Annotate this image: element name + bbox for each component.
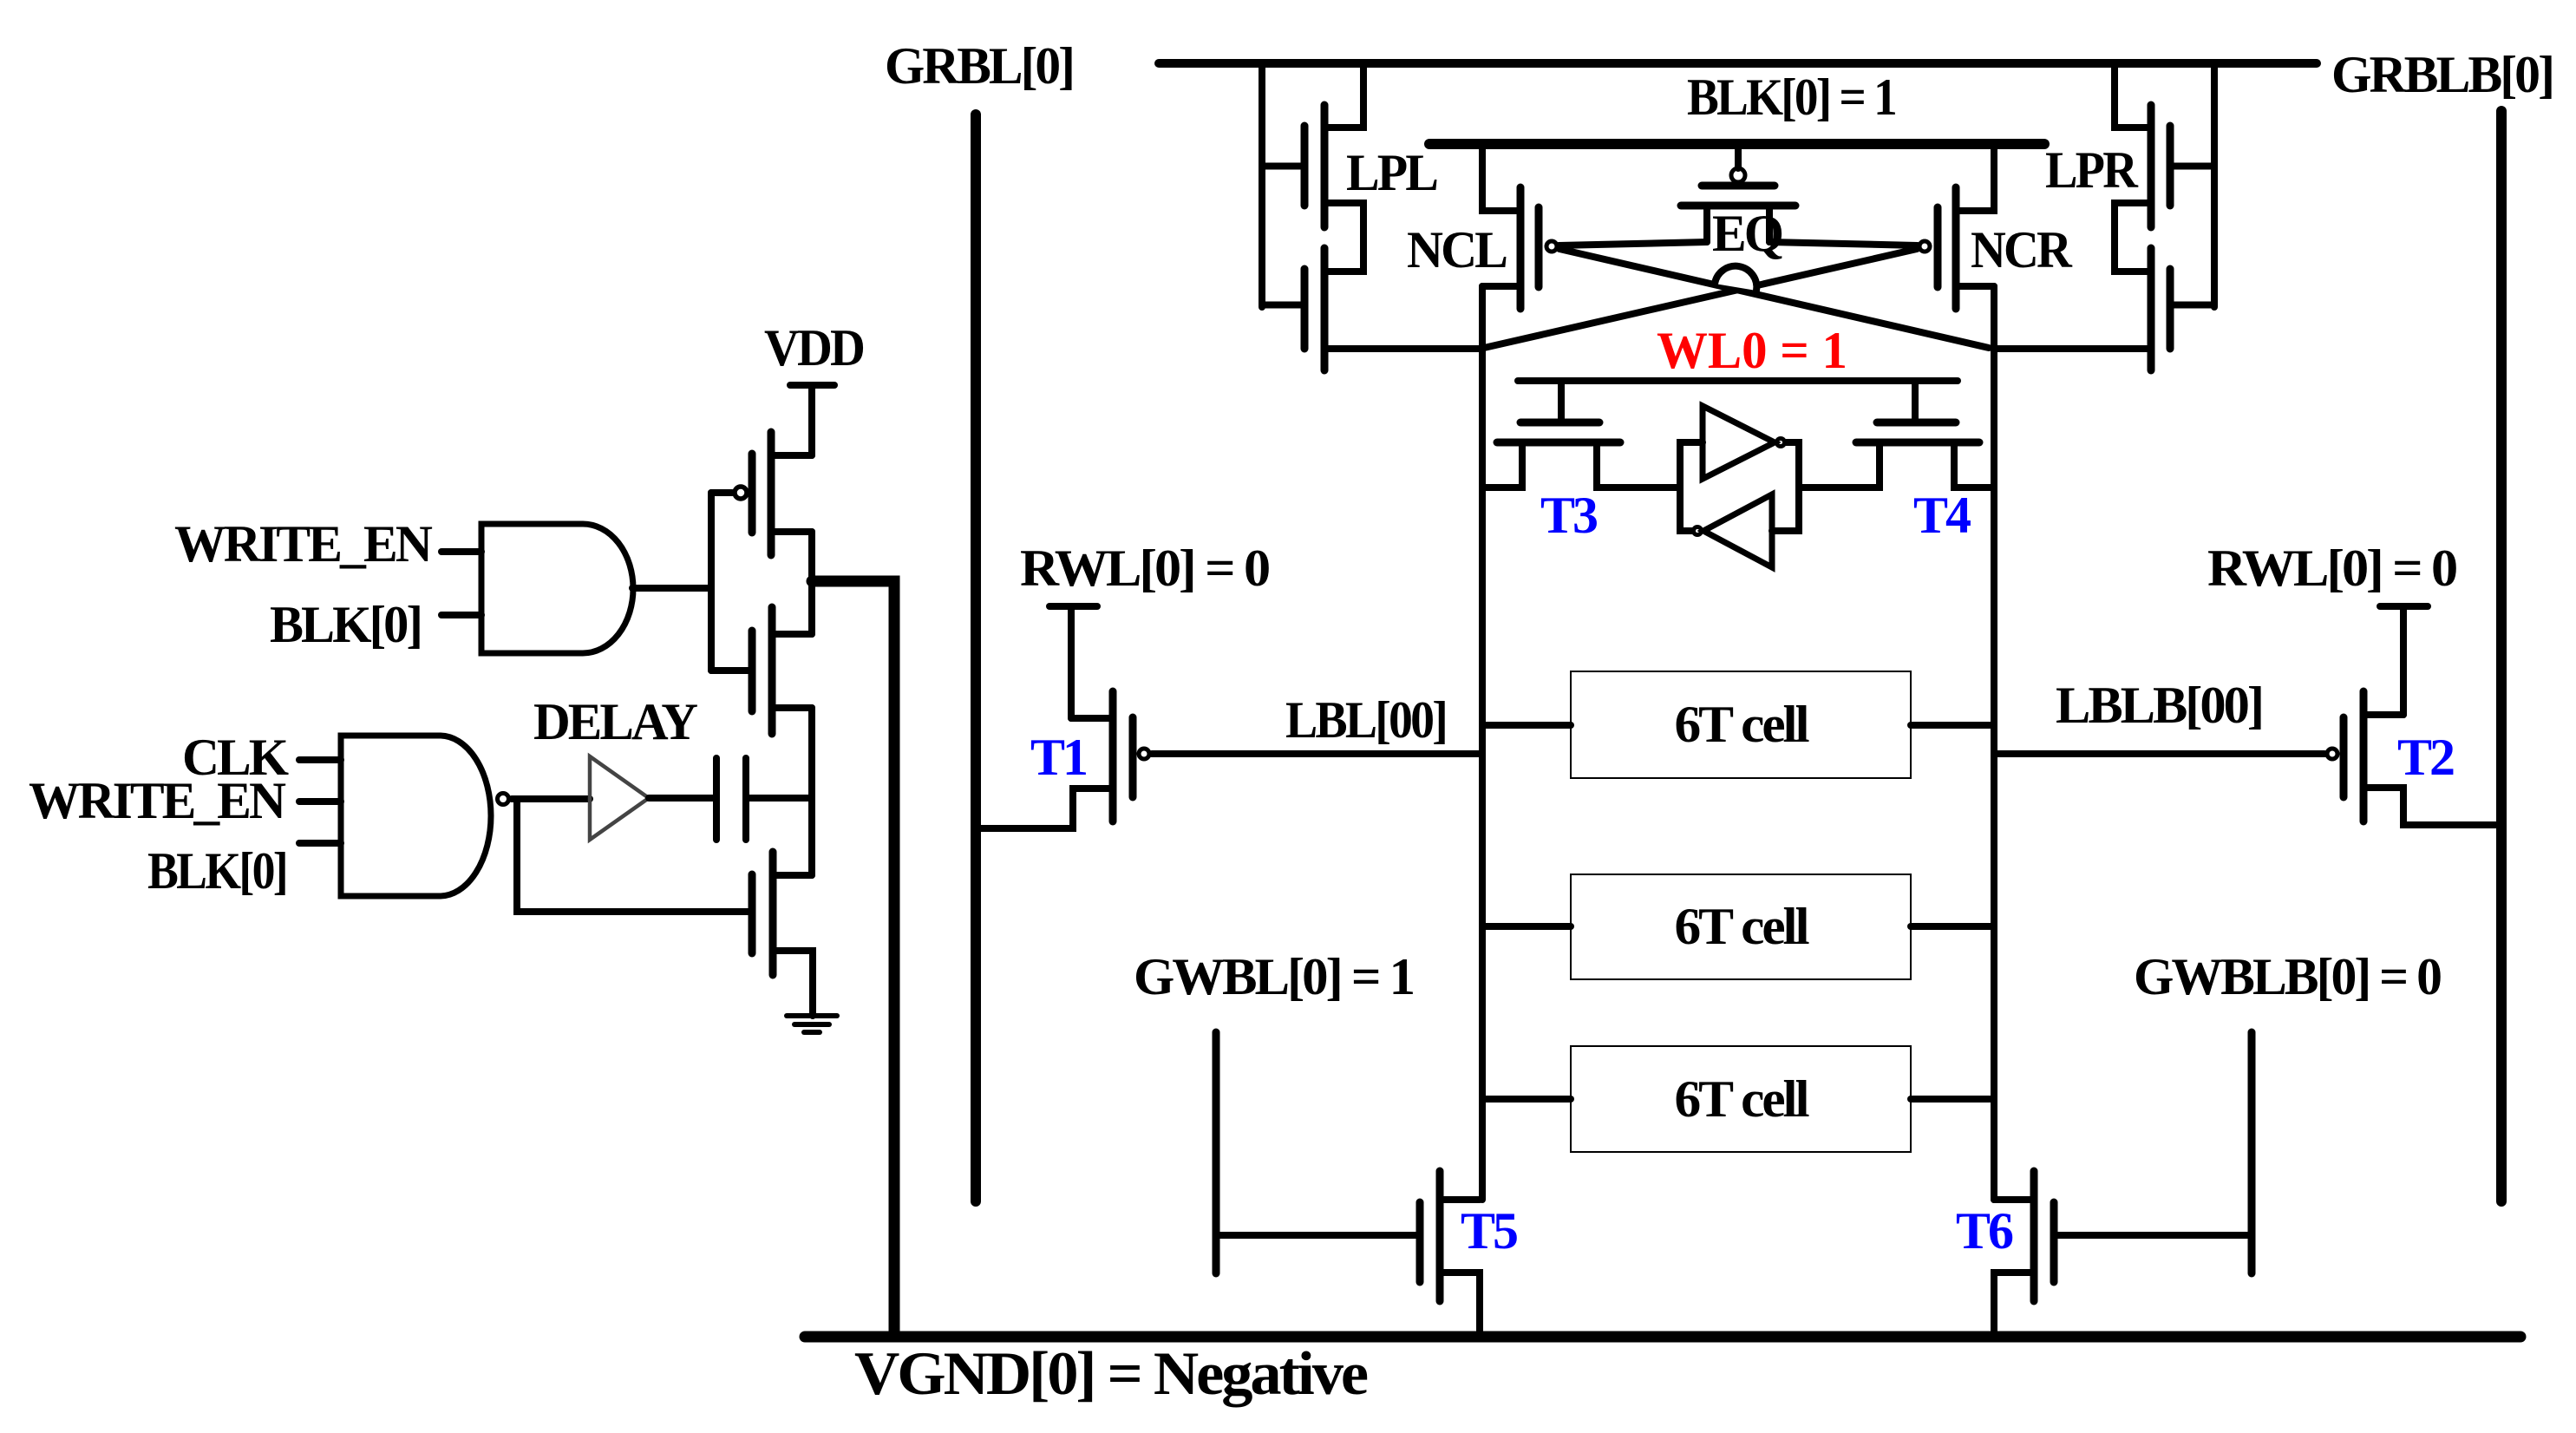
wire GRBL[0] vertical	[971, 115, 981, 1201]
svg-text:LPL: LPL	[1346, 144, 1437, 201]
terminal VDD tick	[790, 382, 834, 389]
6T cell box 3	[1482, 1046, 1994, 1152]
wire GWBL to T5 gate	[1216, 1232, 1420, 1239]
wire BLK[0] line	[1429, 139, 2044, 149]
wire WL0 line	[1518, 377, 1958, 384]
transistor LPR (stacked pair, gate wire)	[2115, 63, 2214, 370]
transistor T1	[976, 606, 1149, 828]
svg-text:T1: T1	[1030, 729, 1086, 786]
svg-text:T6: T6	[1956, 1202, 2013, 1260]
wire LBL vertical	[1479, 286, 1486, 1200]
inverter pair (latch)	[1680, 406, 1799, 567]
svg-text:LBLB[00]: LBLB[00]	[2056, 677, 2262, 734]
wire VGND rail	[805, 1332, 2520, 1343]
svg-text:WRITE_EN: WRITE_EN	[29, 772, 286, 829]
wire cap to node	[749, 795, 812, 802]
wire gate rail	[708, 493, 715, 671]
svg-text:NCL: NCL	[1407, 221, 1507, 278]
svg-text:NCR: NCR	[1971, 221, 2072, 278]
wire NCR bubble to EQ	[1769, 242, 1918, 245]
svg-text:WL0 = 1: WL0 = 1	[1657, 322, 1847, 379]
svg-text:T4: T4	[1913, 487, 1971, 544]
transistor EQ	[1681, 149, 1795, 242]
6T cell box 2	[1482, 874, 1994, 979]
wire hop arc	[1715, 266, 1756, 291]
transistor LPL (stacked pair, gate wire)	[1262, 63, 1363, 370]
transistor NCR	[1919, 144, 1994, 309]
svg-text:BLK[0]: BLK[0]	[147, 842, 286, 900]
svg-text:GWBLB[0] = 0: GWBLB[0] = 0	[2134, 948, 2441, 1005]
transistor N1 (pull-down)	[752, 708, 813, 1016]
wire NAND output	[512, 795, 590, 802]
svg-text:LPR: LPR	[2045, 141, 2138, 199]
svg-text:BLK[0]: BLK[0]	[270, 596, 421, 653]
gate NAND1	[299, 736, 509, 896]
wire feedback to N1 gate	[517, 799, 752, 912]
wire LBLB vertical	[1991, 286, 1997, 1200]
svg-text:RWL[0] = 0: RWL[0] = 0	[1020, 540, 1269, 597]
wire GWBLB to T6 gate	[2054, 1232, 2252, 1239]
wire delay to cap	[649, 795, 713, 802]
transistor T3	[1482, 381, 1680, 487]
wire LBLB[00]	[1994, 750, 2324, 757]
svg-text:6T cell: 6T cell	[1675, 696, 1809, 753]
svg-text:EQ: EQ	[1712, 205, 1782, 262]
transistor T4	[1799, 381, 1994, 487]
svg-text:RWL[0] = 0: RWL[0] = 0	[2207, 540, 2456, 597]
transistor P2 (write driver pull-up 2)	[711, 532, 812, 734]
wire LPL source to LBL	[1324, 345, 1482, 352]
transistor P1 (write driver pull-up)	[711, 432, 812, 555]
terminal GWBLB stub	[2248, 1032, 2256, 1273]
6T cell box 1	[1482, 671, 1994, 778]
svg-text:T2: T2	[2397, 729, 2454, 786]
svg-text:GWBL[0] = 1: GWBL[0] = 1	[1134, 948, 1413, 1005]
svg-text:T3: T3	[1540, 487, 1597, 544]
wire LBL[00]	[1152, 750, 1482, 757]
transistor NCL	[1482, 144, 1557, 309]
transistor T2	[2327, 606, 2501, 825]
gate AND1	[441, 524, 711, 653]
svg-text:T5: T5	[1461, 1202, 1517, 1260]
wire cross diagonal NCL to LBLB	[1559, 249, 1989, 348]
ground	[787, 1016, 837, 1032]
wire top rail GRBL/GRBLB	[1159, 59, 2317, 68]
svg-text:DELAY: DELAY	[533, 693, 698, 750]
transistor T6	[1994, 1171, 2054, 1333]
svg-text:LBL[00]: LBL[00]	[1285, 691, 1446, 749]
svg-text:BLK[0] = 1: BLK[0] = 1	[1687, 69, 1895, 126]
svg-text:WRITE_EN: WRITE_EN	[174, 515, 433, 573]
wire GRBLB[0] vertical	[2496, 111, 2507, 1201]
svg-text:GRBL[0]: GRBL[0]	[885, 37, 1073, 95]
wire VDD stem	[808, 385, 815, 455]
svg-text:6T cell: 6T cell	[1675, 1070, 1809, 1128]
buffer DELAY	[590, 756, 649, 840]
capacitor C1	[716, 758, 746, 840]
wire cross diagonal NCR to LBL	[1484, 249, 1917, 348]
svg-text:GRBLB[0]: GRBLB[0]	[2331, 46, 2553, 103]
wire driver output node (thick)	[812, 581, 894, 1337]
terminal GWBL stub	[1213, 1032, 1220, 1273]
svg-text:VGND[0] = Negative: VGND[0] = Negative	[854, 1340, 1368, 1408]
transistor T5	[1420, 1171, 1480, 1333]
svg-text:VDD: VDD	[764, 319, 864, 376]
wire NCL bubble to EQ	[1559, 242, 1707, 245]
wire LPR source to LBLB	[1994, 345, 2151, 352]
svg-text:6T cell: 6T cell	[1675, 898, 1809, 955]
